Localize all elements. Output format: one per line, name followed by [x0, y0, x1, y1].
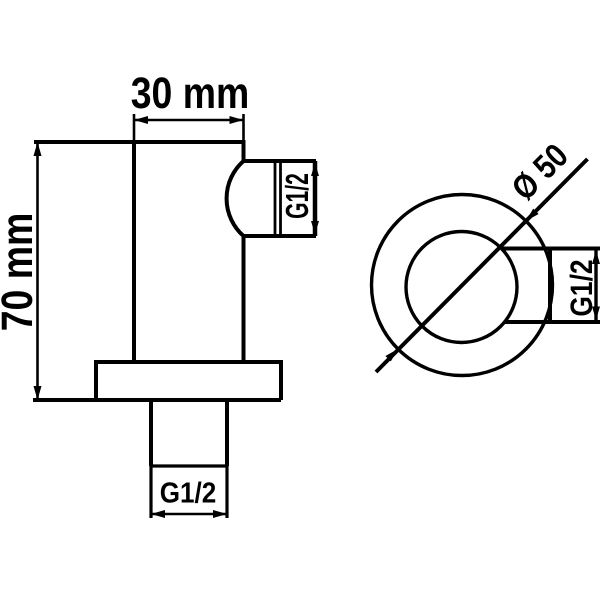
svg-text:G1/2: G1/2 [160, 478, 217, 510]
svg-text:G1/2: G1/2 [279, 173, 315, 219]
svg-text:30 mm: 30 mm [131, 69, 250, 118]
svg-text:70 mm: 70 mm [0, 213, 42, 332]
svg-text:G1/2: G1/2 [564, 259, 599, 316]
